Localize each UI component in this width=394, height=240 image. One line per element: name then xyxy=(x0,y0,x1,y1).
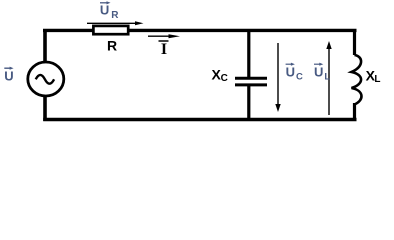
AC source U xyxy=(28,62,64,96)
voltage arrow UC (down) xyxy=(277,43,279,105)
label XL xyxy=(366,68,381,85)
voltage arrow UL (up) xyxy=(328,48,330,116)
svg-text:U: U xyxy=(100,2,109,17)
svg-text:U: U xyxy=(314,65,323,80)
label XC xyxy=(212,66,228,83)
wire left upper xyxy=(43,29,47,64)
svg-text:C: C xyxy=(221,73,228,84)
label UL xyxy=(314,63,330,83)
svg-text:C: C xyxy=(296,72,303,83)
svg-text:U: U xyxy=(286,65,295,80)
svg-text:L: L xyxy=(374,74,380,85)
current arrow I xyxy=(148,35,171,37)
wire right upper xyxy=(353,29,356,55)
capacitor branch wire lower xyxy=(247,86,250,119)
svg-text:R: R xyxy=(111,10,119,21)
svg-text:L: L xyxy=(324,72,330,83)
label UC xyxy=(286,63,303,83)
voltage arrow UR xyxy=(87,22,138,24)
capacitor XC plates xyxy=(235,77,267,80)
svg-text:U: U xyxy=(4,69,13,84)
wire bottom xyxy=(43,118,356,121)
wire left lower xyxy=(43,95,47,122)
wire top xyxy=(43,29,357,32)
node label U (source voltage) xyxy=(4,67,13,84)
svg-text:R: R xyxy=(107,38,117,54)
label UR xyxy=(100,1,119,21)
resistor R xyxy=(93,26,128,34)
label I xyxy=(159,41,169,58)
inductor XL coil xyxy=(352,55,362,105)
wire right lower xyxy=(353,103,356,121)
svg-text:I: I xyxy=(161,41,167,58)
capacitor branch wire upper xyxy=(247,31,250,78)
